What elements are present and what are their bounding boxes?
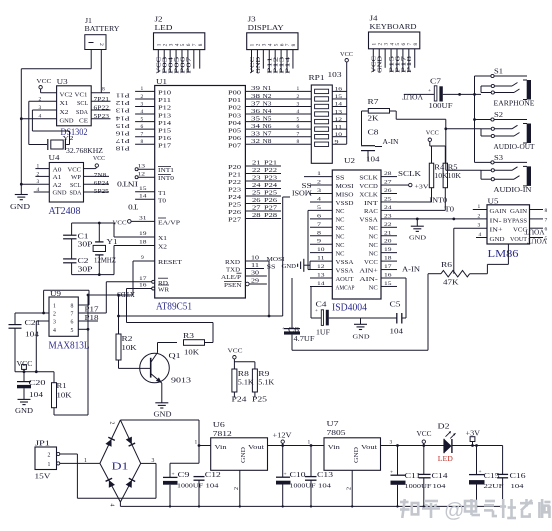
svg-text:VCC: VCC — [426, 130, 439, 137]
U5 pin 5 wire net VOUT — [530, 236, 548, 242]
svg-text:C9: C9 — [178, 472, 191, 479]
capacitor C2 30P — [63, 258, 93, 275]
U1 pin 14 T0 wire — [135, 194, 166, 205]
svg-text:23: 23 — [252, 176, 261, 182]
svg-text:104: 104 — [511, 483, 525, 490]
net label XTDS (rotated) — [117, 290, 135, 297]
connector J3 DISPLAY — [247, 15, 298, 74]
svg-text:8: 8 — [102, 87, 105, 93]
svg-text:12MHZ: 12MHZ — [94, 257, 116, 265]
U4 pin 6 wire net P24 — [84, 181, 110, 187]
IC U5 LM386 body — [487, 198, 530, 245]
IC U1 AT89C51 body — [155, 78, 246, 298]
svg-text:10K: 10K — [184, 350, 199, 357]
switch jack S3 — [475, 154, 532, 194]
svg-text:NC: NC — [336, 235, 345, 241]
net label INT0 (rotated) — [116, 180, 138, 188]
svg-text:104: 104 — [390, 329, 404, 336]
svg-text:P25: P25 — [252, 397, 268, 404]
svg-text:N6: N6 — [263, 124, 272, 130]
svg-text:7: 7 — [545, 217, 548, 223]
svg-text:P11: P11 — [116, 92, 130, 99]
svg-text:VOUT: VOUT — [524, 228, 545, 236]
svg-text:14: 14 — [335, 102, 343, 108]
svg-text:LM86: LM86 — [488, 248, 520, 260]
svg-text:NC: NC — [336, 218, 345, 224]
svg-text:NC: NC — [336, 226, 345, 232]
ground below C20 — [15, 399, 33, 415]
U1 pin 26 P25 wire net P26 — [228, 198, 281, 209]
svg-text:SDA: SDA — [76, 110, 89, 116]
svg-text:P04: P04 — [228, 121, 241, 127]
svg-text:SDA: SDA — [70, 191, 83, 197]
U4 pin 1 wire — [35, 164, 49, 170]
svg-text:VCC: VCC — [93, 155, 105, 162]
svg-text:10K: 10K — [57, 393, 72, 400]
svg-text:+12V: +12V — [273, 433, 292, 440]
resistor R9 5.1K — [252, 369, 274, 392]
svg-text:P16: P16 — [158, 136, 171, 142]
U2 pin 27 VCCD — [359, 180, 397, 190]
U2 pin 9 NC — [310, 239, 345, 249]
svg-text:1: 1 — [308, 440, 311, 446]
capacitor C5 104 — [390, 302, 407, 336]
svg-text:WP: WP — [71, 175, 81, 181]
svg-text:8: 8 — [198, 43, 204, 46]
svg-text:GND: GND — [154, 411, 172, 419]
svg-text:AT2408: AT2408 — [49, 206, 81, 217]
bridge rectifier D1 — [100, 420, 155, 507]
U5 pin 7 wire — [530, 217, 548, 223]
svg-text:R8: R8 — [238, 371, 250, 378]
svg-text:VCCD: VCCD — [359, 184, 377, 190]
U5 designator LM86 — [488, 248, 520, 260]
svg-text:U7: U7 — [327, 419, 339, 428]
svg-text:EA/VP: EA/VP — [158, 220, 181, 226]
svg-text:N8: N8 — [263, 139, 272, 145]
U6 GND pin wire — [234, 470, 240, 506]
svg-text:1: 1 — [84, 458, 87, 464]
svg-text:Y1: Y1 — [107, 239, 118, 246]
IC U3 DS1302 — [57, 78, 92, 126]
resistor network RP1 103 — [309, 71, 347, 163]
svg-text:C14: C14 — [432, 473, 449, 480]
svg-text:VOUT: VOUT — [526, 237, 547, 245]
U2 pin 5 NC — [310, 205, 345, 215]
svg-text:3: 3 — [297, 101, 300, 107]
svg-text:P11: P11 — [158, 98, 171, 104]
svg-text:7: 7 — [297, 132, 300, 138]
svg-text:VSSA: VSSA — [359, 218, 378, 224]
svg-text:36: 36 — [251, 109, 260, 115]
U2 pin 28 net SCLK — [398, 171, 421, 178]
svg-text:P01: P01 — [228, 98, 241, 104]
capacitor C14 104 — [419, 446, 449, 507]
svg-text:GND: GND — [53, 191, 67, 197]
U3 pin 5 wire net P23 — [91, 114, 110, 120]
switch jack S2 — [475, 111, 536, 151]
svg-text:31: 31 — [139, 215, 147, 221]
U2 VSSA bracket wire — [309, 261, 311, 269]
U3 pin 1 wire — [41, 92, 57, 94]
svg-text:NC: NC — [336, 243, 345, 249]
U4 pin 5 wire net P25 — [84, 189, 110, 195]
svg-text:Q1: Q1 — [169, 352, 182, 360]
svg-text:C11: C11 — [405, 473, 421, 480]
wire R3 to WR — [127, 289, 214, 343]
net label T0 — [445, 207, 455, 214]
svg-text:47K: 47K — [443, 280, 459, 287]
svg-text:2: 2 — [478, 213, 481, 219]
svg-text:2: 2 — [48, 453, 51, 459]
svg-text:+: + — [172, 472, 175, 478]
U1 pin 32 P07 wire net N8 — [228, 139, 311, 149]
svg-text:MAX813L: MAX813L — [49, 341, 90, 352]
svg-text:U4: U4 — [49, 154, 61, 162]
svg-text:WR: WR — [158, 288, 169, 294]
wire AIN- down to C5 wire — [397, 278, 406, 318]
svg-text:P23: P23 — [228, 188, 241, 194]
wire to S3 contacts — [446, 169, 481, 171]
svg-text:25: 25 — [252, 191, 261, 197]
VCC power port for R8 R9 — [228, 348, 255, 370]
svg-text:AIN+: AIN+ — [359, 268, 377, 274]
svg-text:INT1: INT1 — [158, 168, 174, 174]
svg-text:LED: LED — [438, 455, 453, 463]
svg-text:RESET: RESET — [158, 260, 182, 266]
IC U2 ISD4004 body — [332, 157, 381, 299]
svg-text:P02: P02 — [228, 106, 241, 112]
wire battery to left rail — [21, 68, 91, 70]
capacitor C7 100UF — [404, 79, 481, 111]
capacitor C1 30P — [63, 223, 93, 259]
svg-text:GAIN: GAIN — [510, 209, 528, 215]
U2 pin 21 NC — [369, 230, 397, 240]
U9 pin 2 wire to C21 — [15, 312, 49, 314]
svg-text:6: 6 — [71, 320, 74, 326]
svg-text:10: 10 — [251, 256, 259, 262]
svg-text:C10: C10 — [290, 472, 307, 479]
svg-text:C13: C13 — [317, 472, 334, 479]
svg-text:29: 29 — [251, 279, 259, 285]
svg-text:5: 5 — [71, 328, 74, 334]
svg-text:NC: NC — [336, 209, 345, 215]
svg-text:28: 28 — [252, 213, 261, 219]
svg-text:7805: 7805 — [327, 428, 346, 437]
U2 pin 4 VSSD — [310, 196, 354, 206]
svg-text:NC: NC — [369, 243, 378, 249]
LED D2 — [438, 423, 456, 464]
net label VOUT at U5 (rotated) — [524, 228, 547, 245]
svg-text:19: 19 — [139, 231, 147, 237]
VCC power port — [17, 361, 34, 372]
svg-text:JP1: JP1 — [35, 440, 51, 448]
net label P13 (rotated) — [116, 107, 130, 114]
svg-text:104: 104 — [206, 483, 220, 490]
U2 pin 24 RAC — [364, 205, 397, 215]
svg-text:4: 4 — [53, 328, 56, 334]
U2 pin 26 XCLK — [359, 188, 397, 198]
regulator U7 7805 — [324, 419, 381, 470]
svg-text:P17: P17 — [115, 137, 130, 144]
U1 pin 12 INT0 wire — [135, 172, 174, 183]
svg-text:KEYBOARD: KEYBOARD — [370, 22, 418, 31]
U2 pin 7 NC — [310, 222, 345, 232]
svg-text:N7: N7 — [263, 132, 272, 138]
net label SS — [302, 182, 312, 190]
svg-text:22UF: 22UF — [484, 483, 505, 490]
svg-text:2: 2 — [347, 487, 353, 490]
svg-text:3: 3 — [390, 440, 393, 446]
U1 pin 13 INT1 wire — [135, 164, 174, 175]
net label P14 (rotated) — [115, 114, 130, 121]
U2 pin 19 NC — [369, 247, 397, 257]
capacitor C10 1000UF — [276, 446, 316, 507]
U2 pin 16 AIN- — [359, 273, 397, 283]
svg-text:N3: N3 — [263, 101, 272, 107]
svg-text:P21: P21 — [228, 173, 241, 179]
svg-text:GND: GND — [60, 119, 74, 125]
U5 pin 4 wire — [476, 232, 487, 238]
U4 pin 3 wire to rail — [21, 179, 49, 185]
svg-text:P21: P21 — [264, 161, 277, 167]
U1 pin 9 RESET wire — [133, 255, 182, 266]
svg-text:11: 11 — [251, 263, 259, 269]
svg-text:15: 15 — [335, 94, 343, 100]
svg-text:8: 8 — [413, 43, 419, 46]
svg-text:+: + — [315, 309, 318, 314]
U9 designator MAX813L — [49, 341, 90, 352]
U1 pin 19 X1 wire — [114, 231, 167, 242]
U4 pin 7 wire net N8 — [84, 173, 110, 179]
U2 pin 13 AOUT — [310, 273, 354, 283]
svg-text:SS: SS — [336, 175, 345, 181]
svg-text:VCC: VCC — [340, 52, 353, 58]
U1 pin 15 T1 wire — [135, 186, 166, 197]
U1 pin 4 P13 wire — [135, 109, 171, 119]
svg-text:P07: P07 — [186, 57, 192, 74]
U3 pin 6 wire net P22 — [91, 106, 110, 112]
svg-text:N5: N5 — [263, 116, 272, 122]
net label P16 (rotated) — [115, 129, 130, 136]
U2 pin 3 MISO — [310, 188, 354, 198]
svg-text:4.7UF: 4.7UF — [294, 336, 315, 343]
svg-text:8: 8 — [71, 304, 74, 310]
U1 pin 29 PSEN wire — [224, 279, 267, 290]
svg-text:BATTERY: BATTERY — [85, 24, 121, 33]
U1 pin 39 P00 wire net N1 — [228, 86, 311, 96]
U2 NC strap wire — [308, 210, 310, 269]
svg-text:5P23: 5P23 — [94, 114, 110, 120]
svg-text:9013: 9013 — [171, 377, 192, 385]
U1 pin 17 RD wire — [106, 276, 168, 287]
capacitor C4 1UF — [311, 286, 397, 336]
wire to X1 — [113, 223, 115, 237]
wire C7 to S1 contacts — [480, 86, 482, 94]
svg-text:GND: GND — [354, 446, 360, 463]
svg-text:P22: P22 — [264, 168, 277, 174]
svg-text:R1: R1 — [57, 383, 67, 390]
svg-text:IN-: IN- — [490, 218, 502, 224]
svg-text:8: 8 — [297, 139, 300, 145]
U1 pin 22 P21 wire net P22 — [228, 168, 281, 179]
U2 pin 18 VCC — [364, 256, 397, 266]
svg-text:Vin: Vin — [328, 445, 340, 451]
svg-text:9: 9 — [141, 255, 144, 261]
svg-text:VCC: VCC — [417, 431, 432, 438]
U7 pin1 wire — [308, 440, 311, 446]
capacitor C15 22UF — [469, 446, 504, 507]
VCC power port for U3 — [36, 78, 51, 93]
svg-text:+3V: +3V — [415, 183, 429, 190]
wire R7 net to S2 contacts — [446, 128, 481, 130]
U1 pin 36 P03 wire net N4 — [228, 109, 311, 119]
capacitor C8 104 net A-IN — [361, 111, 399, 164]
wire VSSA to LM386 IN- — [397, 217, 487, 220]
svg-text:GAIN: GAIN — [490, 209, 508, 215]
crystal Y1 12MHZ — [93, 223, 117, 275]
U5 pin 1 wire — [473, 204, 487, 210]
svg-text:AUDIO-IN: AUDIO-IN — [494, 186, 532, 194]
svg-text:P18: P18 — [407, 56, 413, 73]
net label P11 (rotated) — [116, 92, 130, 99]
resistor R5 10K — [443, 146, 461, 210]
capacitor C11 1000UF — [390, 446, 432, 507]
svg-text:MISO: MISO — [336, 192, 354, 198]
svg-text:8: 8 — [291, 43, 297, 46]
svg-text:NC: NC — [369, 285, 378, 291]
svg-text:10K: 10K — [122, 345, 137, 352]
U2 pin 8 NC — [310, 230, 345, 240]
svg-text:X1: X1 — [60, 101, 69, 107]
svg-text:18: 18 — [139, 240, 147, 246]
svg-text:+: + — [282, 326, 285, 332]
svg-text:P16: P16 — [115, 129, 130, 136]
svg-text:GND: GND — [378, 56, 384, 73]
svg-text:S1: S1 — [494, 68, 504, 76]
svg-text:C4: C4 — [316, 302, 328, 309]
svg-text:13: 13 — [138, 164, 146, 170]
svg-text:N2: N2 — [263, 94, 272, 100]
U2 pin 15 NC — [369, 281, 397, 291]
U2 pin 20 NC — [369, 239, 397, 249]
U1 pin 28 P27 wire net P28 — [228, 213, 281, 224]
bridge diode bottom-right — [125, 478, 135, 488]
U1 pin 6 P15 wire — [135, 124, 171, 134]
svg-text:P15: P15 — [116, 122, 130, 129]
IC U9 MAX813L body — [49, 290, 78, 336]
+3V power port — [466, 431, 481, 446]
svg-text:P18: P18 — [85, 315, 100, 322]
svg-text:1: 1 — [195, 440, 198, 446]
U7 GND pin wire — [347, 470, 353, 506]
svg-text:13: 13 — [335, 109, 343, 115]
svg-text:C21: C21 — [25, 320, 41, 327]
svg-text:T0: T0 — [445, 207, 455, 214]
net label P18 (rotated) — [116, 144, 130, 151]
VCC power port for R4 R5 — [426, 130, 446, 147]
U1 designator AT89C51 — [156, 302, 192, 313]
ground — [10, 195, 30, 212]
capacitor C9 1000UF — [163, 463, 203, 506]
svg-text:VC2: VC2 — [60, 93, 73, 99]
svg-text:X1: X1 — [158, 236, 167, 242]
bridge diode top-right — [126, 437, 136, 447]
svg-text:XTDS: XTDS — [117, 290, 135, 297]
svg-text:X2: X2 — [60, 110, 69, 116]
wire RD to P17 — [105, 282, 107, 313]
svg-text:C1: C1 — [78, 234, 89, 241]
svg-text:32.768KHZ: 32.768KHZ — [66, 147, 103, 155]
svg-text:GND: GND — [15, 407, 33, 415]
svg-text:P28: P28 — [264, 213, 277, 219]
svg-text:30P: 30P — [78, 267, 93, 274]
U5 pin 6 wire — [530, 227, 548, 233]
svg-text:IN+: IN+ — [490, 228, 504, 234]
svg-text:@: @ — [444, 500, 464, 522]
svg-text:P24: P24 — [264, 183, 277, 189]
net label MOSI (rotated) — [291, 188, 312, 197]
svg-text:SCL: SCL — [77, 101, 88, 107]
U4 pin 2 wire — [35, 171, 49, 177]
wire AMCAP branch to R6 — [292, 274, 428, 351]
U6 pin1 wire — [195, 440, 211, 446]
svg-text:RXD: RXD — [225, 260, 241, 266]
svg-text:P25: P25 — [228, 203, 241, 209]
svg-text:5.1K: 5.1K — [258, 380, 274, 387]
svg-text:LED: LED — [155, 23, 174, 32]
svg-text:15: 15 — [139, 186, 147, 192]
svg-text:+: + — [428, 88, 431, 94]
wire VCC top rail of crystal — [72, 222, 114, 225]
U2 pin 2 MOSI — [310, 180, 354, 190]
U2 pin 28 SCLK — [359, 171, 397, 181]
wire INT to R4 net INT0 — [397, 201, 432, 203]
svg-text:NC: NC — [369, 251, 378, 257]
svg-text:P13: P13 — [116, 107, 130, 114]
svg-text:S2: S2 — [494, 111, 504, 119]
svg-text:SS: SS — [267, 263, 276, 270]
U3 pin 2 wire — [29, 96, 57, 144]
+12V power port — [273, 433, 292, 446]
U1 pin 30 ALE/P wire — [221, 271, 267, 282]
svg-text:24: 24 — [252, 183, 261, 189]
U3 pin 8 wire from battery — [91, 87, 110, 93]
svg-text:100UF: 100UF — [429, 103, 453, 110]
svg-text:A-IN: A-IN — [402, 267, 420, 274]
svg-text:1: 1 — [53, 304, 56, 310]
svg-text:GND: GND — [241, 446, 247, 463]
U5 pin 8 wire — [530, 208, 548, 214]
svg-text:AIN-: AIN- — [359, 277, 378, 283]
wire U7 Vout net VCC — [381, 440, 445, 447]
svg-text:EARPHONE: EARPHONE — [494, 100, 535, 108]
svg-text:RAC: RAC — [364, 209, 378, 215]
resistor R6 47K — [441, 262, 470, 287]
U2 pin 12 VSSA — [310, 264, 354, 274]
net label P15 (rotated) — [116, 122, 130, 129]
left ground rail — [20, 69, 23, 195]
svg-text:1000UF: 1000UF — [405, 483, 432, 490]
svg-text:1: 1 — [297, 86, 300, 92]
bridge diode bottom-left — [106, 478, 116, 488]
svg-text:Y2: Y2 — [63, 135, 74, 142]
svg-text:P14: P14 — [158, 121, 171, 127]
svg-text:12: 12 — [335, 117, 343, 123]
VCC power port for U4 — [84, 155, 106, 168]
wire MOSI vertical — [268, 261, 270, 316]
svg-text:30: 30 — [251, 271, 259, 277]
